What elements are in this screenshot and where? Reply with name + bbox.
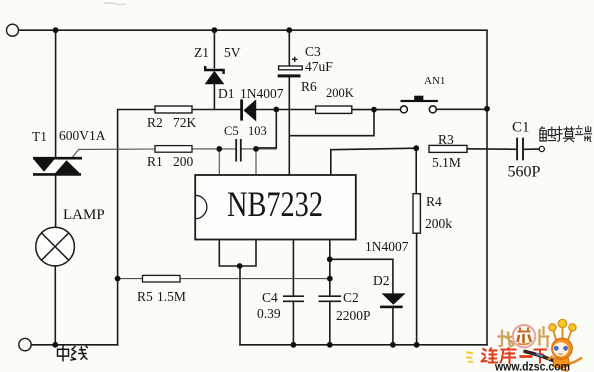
watermark yellow flicks bbox=[466, 352, 473, 362]
terminal (top-left live input) bbox=[7, 24, 19, 36]
svg-text:72K: 72K bbox=[173, 115, 197, 130]
svg-text:AN1: AN1 bbox=[424, 75, 445, 87]
resistor R5 bbox=[143, 275, 181, 282]
capacitor C5 bbox=[236, 139, 241, 162]
wire C5 node pins down to IC bbox=[218, 149, 220, 175]
node C4 ground junction bbox=[291, 342, 297, 348]
svg-text:2200P: 2200P bbox=[336, 308, 371, 323]
wire IC pins 1-2 strap bbox=[219, 240, 256, 267]
svg-text:200k: 200k bbox=[425, 216, 452, 231]
wire neutral rail right segment bbox=[240, 344, 487, 346]
node pin strap junction bbox=[237, 263, 243, 269]
faint scan smudge top bbox=[104, 3, 126, 5]
node D2 ground junction bbox=[390, 342, 396, 348]
label 触摸端 (touch terminal, drawn strokes) bbox=[540, 125, 593, 142]
node R5 left junction bbox=[115, 276, 121, 282]
resistor R6 bbox=[316, 106, 352, 113]
node R3-R4 junction bbox=[413, 145, 419, 151]
wire neutral rail left segment bbox=[31, 344, 117, 346]
node C5 left junction bbox=[216, 146, 222, 152]
wire D2 branch horizontal bbox=[330, 259, 393, 293]
svg-text:NB7232: NB7232 bbox=[227, 184, 323, 224]
svg-text:103: 103 bbox=[248, 124, 267, 138]
watermark magnifier with 芯 bbox=[513, 325, 535, 347]
wire C4 to rail bbox=[292, 301, 294, 345]
pushbutton AN1 bbox=[400, 96, 438, 113]
node D2 tap junction bbox=[327, 256, 333, 262]
wire C5 to node bbox=[241, 148, 276, 150]
wire R6 to switch bbox=[352, 109, 401, 111]
triac T1 bbox=[33, 158, 82, 174]
svg-text:Z1: Z1 bbox=[194, 45, 209, 60]
wire top rail bbox=[19, 30, 487, 345]
node switch-right junction bbox=[484, 106, 490, 112]
svg-text:600V1A: 600V1A bbox=[59, 128, 106, 143]
watermark mascot bbox=[548, 319, 582, 370]
一 bbox=[520, 355, 533, 358]
wire IC pin5 to C2 bbox=[329, 240, 331, 297]
svg-text:T1: T1 bbox=[32, 129, 47, 144]
capacitor C4 bbox=[283, 296, 304, 301]
capacitor C2 bbox=[319, 296, 342, 301]
resistor R2 bbox=[155, 106, 192, 113]
wire C2 to rail bbox=[329, 301, 331, 345]
wire R5 to IC pin5 node bbox=[180, 278, 330, 280]
node C3 top junction bbox=[286, 27, 292, 33]
svg-text:C1: C1 bbox=[512, 120, 530, 136]
resistor R3 bbox=[429, 145, 467, 152]
resistor R4 (vertical) bbox=[413, 194, 420, 234]
wire R5 node line bbox=[118, 278, 143, 280]
wire C1 to touch terminal bbox=[524, 148, 539, 150]
node lamp-neutral junction bbox=[52, 342, 58, 348]
wire C3 bottom to IC pin and R6-out loop bbox=[289, 77, 374, 136]
terminal (bottom-left neutral) bbox=[19, 338, 31, 350]
wire R4 branch bbox=[415, 148, 417, 194]
node Z1 top junction bbox=[212, 27, 218, 33]
svg-text:R5: R5 bbox=[137, 289, 153, 304]
svg-text:0.39: 0.39 bbox=[257, 306, 281, 321]
svg-text:C5: C5 bbox=[224, 124, 239, 138]
wire D1 junction down-left to C5 node bbox=[256, 110, 276, 148]
diode D2 bbox=[380, 293, 405, 308]
svg-text:R4: R4 bbox=[426, 194, 442, 209]
lamp bbox=[36, 227, 75, 266]
zener diode Z1 bbox=[205, 66, 225, 84]
svg-text:1.5M: 1.5M bbox=[157, 289, 186, 304]
wire IC pin6 to C4 bbox=[292, 240, 294, 297]
wire D2 to rail bbox=[392, 307, 394, 345]
svg-text:D2: D2 bbox=[373, 273, 390, 288]
svg-text:C3: C3 bbox=[305, 44, 321, 59]
svg-text:C4: C4 bbox=[262, 290, 278, 305]
wire R1 to C5 bbox=[192, 148, 236, 150]
watermark 找 (outlined) bbox=[498, 331, 514, 347]
svg-text:200: 200 bbox=[173, 154, 194, 169]
node C2 ground junction bbox=[327, 342, 333, 348]
diode D1 bbox=[240, 99, 256, 121]
resistor R1 bbox=[155, 146, 192, 153]
svg-text:1N4007: 1N4007 bbox=[365, 239, 409, 254]
watermark brush stroke bbox=[525, 352, 556, 362]
wire D1 to R6 bbox=[256, 109, 316, 111]
svg-text:www.dzsc.com: www.dzsc.com bbox=[494, 360, 570, 372]
wire left main vertical upper (to triac) bbox=[55, 30, 57, 158]
svg-text:47uF: 47uF bbox=[305, 59, 333, 74]
svg-text:200K: 200K bbox=[326, 86, 354, 100]
svg-text:C2: C2 bbox=[343, 290, 359, 305]
svg-text:5.1M: 5.1M bbox=[432, 155, 461, 170]
svg-text:R3: R3 bbox=[438, 132, 454, 147]
svg-text:D1: D1 bbox=[218, 86, 235, 101]
capacitor C1 bbox=[517, 138, 523, 161]
svg-text:R6: R6 bbox=[301, 79, 317, 94]
node R5 right junction bbox=[327, 276, 333, 282]
wire IC pin7 up and across to R3 node bbox=[331, 148, 416, 175]
wire lamp to neutral rail bbox=[54, 266, 56, 345]
wire zener branch bbox=[213, 30, 215, 67]
watermark 片 (outlined) bbox=[540, 327, 549, 347]
node C5 right junction bbox=[253, 146, 259, 152]
svg-text:R2: R2 bbox=[147, 115, 163, 130]
库 bbox=[500, 347, 517, 364]
wire triac gate to R1 bbox=[72, 149, 155, 158]
node top-left junction bbox=[53, 27, 59, 33]
下 bbox=[534, 350, 548, 364]
wire left mid vertical bbox=[118, 110, 155, 345]
wire triac to lamp bbox=[55, 175, 57, 228]
svg-text:560P: 560P bbox=[508, 164, 541, 181]
svg-text:R1: R1 bbox=[147, 154, 163, 169]
capacitor C3 (electrolytic) bbox=[278, 57, 303, 78]
wire switch to right vertical bbox=[437, 108, 488, 110]
label 中线 (neutral, drawn strokes) bbox=[58, 344, 88, 361]
watermark 维库一下 (red) bbox=[481, 347, 547, 364]
svg-text:LAMP: LAMP bbox=[63, 207, 105, 223]
terminal (touch plate) bbox=[539, 146, 544, 151]
wire ground drop from strap bbox=[239, 266, 241, 345]
op-amp U1 IC NB7232 body bbox=[195, 175, 356, 240]
svg-text:1N4007: 1N4007 bbox=[240, 86, 284, 101]
wire R3 to C1 bbox=[467, 148, 517, 151]
维 bbox=[481, 348, 498, 364]
svg-text:5V: 5V bbox=[224, 45, 241, 60]
node R6 output junction bbox=[371, 107, 377, 113]
node R4 ground junction bbox=[414, 342, 420, 348]
node D1 output junction bbox=[273, 107, 279, 113]
wire C3 branch top bbox=[288, 30, 290, 66]
wire R2 to D1 bbox=[192, 109, 240, 111]
